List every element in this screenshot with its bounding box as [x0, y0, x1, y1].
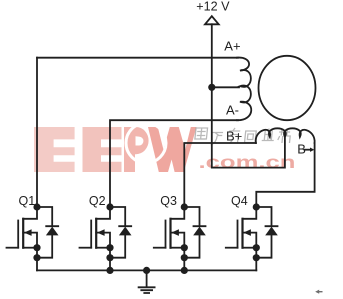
- node Q4 source-body junction: [253, 244, 260, 251]
- diode triangle of Q4: [265, 227, 278, 236]
- svg-text:B+: B+: [226, 129, 242, 144]
- svg-text:Q3: Q3: [160, 194, 177, 208]
- watermark EEPW logo: [34, 123, 197, 172]
- Q1 channel bar: [22, 219, 24, 248]
- Q2 body arrow head: [97, 229, 105, 236]
- +12V supply arrow: [205, 16, 219, 24]
- watermark chinese characters: [194, 128, 291, 145]
- inductor coil B winding: [256, 128, 315, 143]
- svg-text:Q1: Q1: [19, 194, 36, 208]
- wire A+ rail: [37, 57, 238, 59]
- Q3 channel bar: [169, 219, 171, 248]
- Q4 source lead: [243, 247, 257, 249]
- Q4 body arrow head: [243, 229, 251, 236]
- Q1 gate bar: [17, 221, 19, 248]
- Q4 channel bar: [241, 219, 243, 248]
- wire A center tap: [212, 86, 239, 88]
- node Q2 source-body junction: [106, 244, 113, 251]
- node Q2 drain: [106, 203, 113, 210]
- ground: [139, 270, 155, 293]
- Q1 drain lead: [23, 207, 37, 219]
- body diode of Q4: [256, 207, 277, 258]
- Q1 gate lead: [7, 247, 19, 249]
- svg-text:A-: A-: [226, 102, 239, 117]
- Q2 gate lead: [80, 247, 92, 249]
- body diode of Q2: [110, 207, 131, 258]
- node Q3 source-body junction: [181, 244, 188, 251]
- Q4 gate bar: [237, 221, 239, 248]
- svg-text:B: B: [297, 141, 306, 156]
- Q3 body arrow head: [171, 229, 179, 236]
- Q3 gate bar: [165, 221, 167, 248]
- diode triangle of Q1: [46, 227, 59, 236]
- node Q3 drain: [181, 203, 188, 210]
- wire left bus to Q1 drain: [36, 58, 38, 207]
- Q3 body connection and source wire: [171, 233, 185, 271]
- diode triangle of Q2: [119, 227, 132, 236]
- svg-text:.com.cn: .com.cn: [199, 152, 296, 172]
- svg-text:Q4: Q4: [231, 194, 248, 208]
- transistor Q3: [154, 207, 206, 270]
- Q4 body connection and source wire: [243, 233, 257, 271]
- svg-text:A+: A+: [224, 39, 240, 54]
- transistor Q2: [80, 207, 132, 270]
- node Q4 drain: [253, 203, 260, 210]
- Q2 drain lead: [96, 207, 110, 219]
- node Q2 rail junction: [106, 267, 113, 274]
- node A winding center tap: [208, 84, 215, 91]
- wire +12V vertical down to elbow then up to coil B center tap: [212, 24, 285, 167]
- Q1 body arrow head: [24, 229, 32, 236]
- ground rail: [37, 269, 256, 271]
- Q2 channel bar: [95, 219, 97, 248]
- Q4 drain lead: [243, 207, 257, 219]
- node Q2 source-diode junction: [106, 254, 113, 261]
- diode triangle of Q3: [193, 227, 206, 236]
- transistor Q4: [226, 207, 278, 270]
- wire B- to Q4 drain: [256, 143, 314, 207]
- Q2 source lead: [96, 247, 110, 249]
- svg-text:+12 V: +12 V: [196, 0, 230, 14]
- Q2 gate bar: [90, 221, 92, 248]
- node Q3 source-diode junction: [181, 254, 188, 261]
- node Q1 source-diode junction: [33, 254, 40, 261]
- wire A- rail to Q2 drain: [110, 120, 238, 207]
- node ground junction: [143, 267, 150, 274]
- caption arrow: [317, 291, 323, 293]
- wire B- label dash: [305, 149, 311, 151]
- node Q4 source-diode junction: [253, 254, 260, 261]
- Q4 gate lead: [226, 247, 238, 249]
- Q2 body connection and source wire: [96, 233, 110, 271]
- node Q1 source-body junction: [33, 244, 40, 251]
- motor body: [259, 56, 316, 120]
- svg-text:Q2: Q2: [89, 194, 106, 208]
- Q1 body connection and source wire: [23, 233, 37, 271]
- transistor Q1: [7, 207, 59, 270]
- Q3 source lead: [171, 247, 185, 249]
- Q3 gate lead: [154, 247, 166, 249]
- body diode of Q3: [184, 207, 205, 258]
- Q1 source lead: [23, 247, 37, 249]
- node Q3 rail junction: [181, 267, 188, 274]
- inductor coil A winding: [237, 58, 251, 121]
- Q3 drain lead: [171, 207, 185, 219]
- body diode of Q1: [37, 207, 58, 258]
- node Q1 drain: [33, 203, 40, 210]
- wire B+ to Q3 drain: [184, 143, 256, 207]
